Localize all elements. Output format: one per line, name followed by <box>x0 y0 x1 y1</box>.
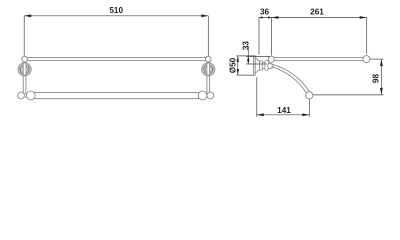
dimension 98 bottom extension <box>313 94 383 96</box>
svg-text:33: 33 <box>242 41 251 51</box>
dimension 33 bottom extension <box>246 63 267 65</box>
curved arm outer line <box>271 64 309 92</box>
svg-text:36: 36 <box>260 7 270 16</box>
pivot upper ball <box>268 56 274 62</box>
pivot block <box>265 61 268 71</box>
dimension 33 top extension <box>246 56 270 58</box>
bottom bar left collar <box>26 91 35 100</box>
dimension 36 right arrow <box>268 16 271 18</box>
dimension 510 extension line right <box>207 16 209 56</box>
dimension 33 line <box>247 46 249 64</box>
dimension 33 down arrow <box>247 60 249 64</box>
dimension O50 down arrow <box>237 69 239 75</box>
dimension 141 left extension <box>256 77 258 117</box>
straight bar (side view) <box>274 58 363 61</box>
top bar <box>27 58 206 61</box>
pivot neck <box>262 62 265 68</box>
bottom bar right collar <box>198 91 207 100</box>
dimension 98 top extension <box>370 58 384 60</box>
bottom bar right ball <box>207 92 214 99</box>
dimension 36 extension line right <box>270 18 272 56</box>
curved arm ball <box>306 92 313 99</box>
dimension 33 up arrow <box>247 57 249 61</box>
dimension 36 left arrow <box>259 16 262 18</box>
curved arm inner line <box>271 67 306 93</box>
dimension 261 extension line right <box>366 18 368 55</box>
svg-text:510: 510 <box>109 6 123 15</box>
dimension O50 extension top <box>236 55 253 57</box>
bottom bar left neck <box>24 94 28 97</box>
dimension 36-261 shared line <box>259 17 367 19</box>
dimension 141 right arrow <box>302 113 309 116</box>
bottom bar right neck <box>206 94 210 97</box>
dimension 510 extension line left <box>23 16 25 56</box>
flange cone <box>255 58 259 74</box>
left post <box>23 59 26 95</box>
dimension 510 left arrow <box>24 14 31 17</box>
dimension 261 right arrow <box>360 16 367 19</box>
dimension O50 extension bottom <box>236 74 253 76</box>
dimension 141 right extension <box>308 99 310 117</box>
dimension 141 line <box>257 114 310 116</box>
bar end circle <box>363 56 370 63</box>
bottom bar left ball <box>18 92 25 99</box>
dimension O50 line <box>237 56 239 75</box>
top bar right ball <box>205 56 211 62</box>
svg-text:261: 261 <box>310 7 324 16</box>
dimension 36 extension line left <box>258 18 260 55</box>
wall plate <box>253 56 255 76</box>
dimension 141 left arrow <box>257 113 264 116</box>
top bar left ball <box>22 56 28 62</box>
svg-text:Ø50: Ø50 <box>228 57 237 73</box>
right post <box>207 59 210 95</box>
dimension O50 up arrow <box>237 56 239 62</box>
left wall flange <box>18 63 31 76</box>
dimension 98 down arrow <box>380 88 383 95</box>
dimension 261 left arrow <box>271 16 278 19</box>
dimension 510 line <box>24 15 208 17</box>
dimension 98 up arrow <box>380 59 383 66</box>
svg-text:98: 98 <box>372 74 381 84</box>
right wall flange <box>202 63 215 76</box>
dimension 98 line <box>380 59 382 95</box>
bottom bar <box>35 93 200 99</box>
pivot lower ball <box>268 63 273 68</box>
svg-text:141: 141 <box>277 106 291 115</box>
dimension 510 right arrow <box>201 14 208 17</box>
flange ridge collar <box>260 61 263 70</box>
